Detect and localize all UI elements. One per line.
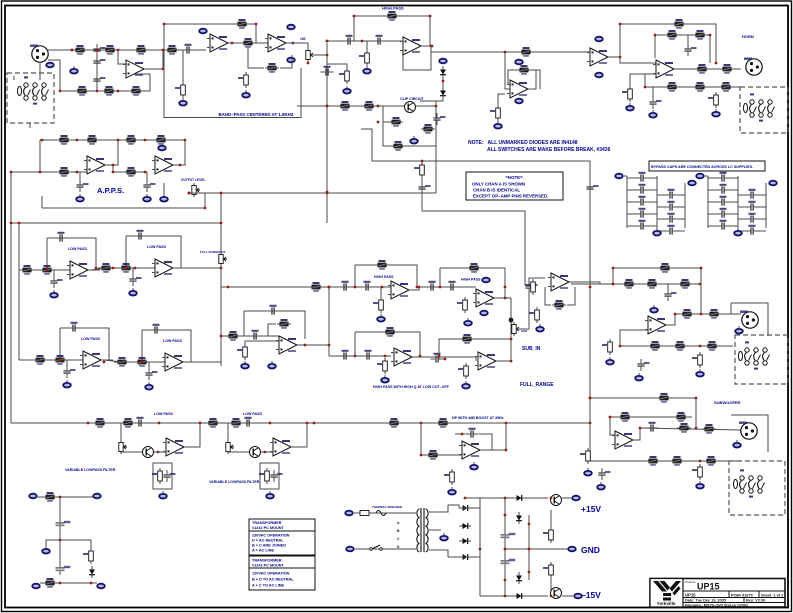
node junction d10 [528, 571, 531, 574]
svg-text:UP15: UP15 [685, 592, 696, 597]
transistor VLF2 fet [250, 447, 261, 458]
potentiometer P3 sub [512, 322, 520, 336]
wire c11 stub [79, 172, 81, 180]
node junction gnd rail [504, 548, 507, 551]
wire fr fb [355, 332, 420, 356]
wire VLF1 to op [154, 451, 166, 453]
node junction extra 43 [464, 497, 467, 500]
wire xfmr sec bot [429, 550, 448, 557]
node junction extra 9 [112, 171, 115, 174]
wire xfmr pri bot [400, 548, 416, 550]
op-amp VLF2 op [270, 438, 294, 456]
resistor R14 feedback [385, 11, 399, 21]
wire U2A out [229, 42, 268, 44]
node junction y106 [377, 105, 380, 108]
capacitor bypass B1a [717, 184, 730, 194]
ground R53 [381, 375, 389, 383]
node junction hp row [328, 286, 331, 289]
wire mid rail GND [505, 548, 568, 550]
resistor R10 vert [238, 72, 248, 88]
node junction extra 52 [163, 23, 166, 26]
svg-text:HIGH PASS: HIGH PASS [461, 278, 481, 282]
node junction extra 6 [204, 207, 207, 210]
wire r13 stub [327, 64, 347, 68]
switch SW1 pad [18, 76, 49, 104]
node junction extra 26 [510, 360, 513, 363]
node junction extra 60 [435, 105, 438, 108]
wire fb inner drop [654, 35, 656, 58]
wire bypass grid A right rail [684, 183, 686, 228]
node bottom left a [32, 584, 40, 589]
node bottom U4 [515, 99, 523, 104]
title block row2 cells [683, 597, 785, 599]
capacitor C3 [93, 74, 105, 86]
resistor R22 [421, 124, 435, 134]
wire bypass row2 B4 l [738, 230, 746, 232]
capacitor C35 big [501, 556, 516, 568]
ground BL [42, 546, 50, 554]
wire rail pos [465, 497, 548, 499]
node junction extra 61 [326, 105, 329, 108]
capacitor C4 [182, 44, 195, 54]
wire bypass row2 A3 r [677, 218, 685, 220]
svg-text:HORN: HORN [742, 34, 754, 39]
node junction x329 [328, 344, 331, 347]
capacitor C15 fb [267, 305, 280, 315]
ground R46 [377, 314, 385, 322]
band-pass section outline [164, 24, 301, 118]
wire sub fb y268 [613, 268, 701, 284]
op-amp LP1 [67, 261, 91, 279]
capacitor C12 vert [143, 180, 155, 192]
node junction extra 35 [609, 416, 612, 419]
wire switch lead 2 [29, 123, 31, 128]
thermal breaker TB1 [376, 511, 386, 516]
ground R76 [584, 468, 592, 476]
resistor R88 vert [543, 527, 553, 543]
svg-text:LOW PASS: LOW PASS [68, 247, 88, 251]
wire LP2 fb drop [125, 236, 127, 268]
svg-text:ALL SWITCHES ARE MAKE BEFORE B: ALL SWITCHES ARE MAKE BEFORE BREAK, #343… [487, 147, 611, 153]
capacitor bypass B2b [746, 201, 759, 211]
connector XLR J3 [740, 311, 758, 329]
wire LP4 c stub [148, 362, 150, 368]
wire apps mid [113, 165, 147, 172]
op-amp U7B [152, 156, 176, 174]
wire bypass row2 B2 l [738, 206, 746, 208]
wire rect top [448, 498, 505, 508]
capacitor bypass A1a [636, 184, 649, 194]
node junction LP2 [125, 267, 128, 270]
ground LP3 [63, 380, 71, 388]
wire hp input y41 [327, 40, 402, 42]
wire r50 right [567, 287, 575, 305]
fuse F1 [360, 511, 369, 516]
wire q3 out [562, 595, 573, 597]
wire LP4 out [186, 361, 195, 363]
capacitor bypass A3a [636, 208, 649, 218]
ground C11 [76, 194, 84, 202]
wire bypass row2 A3 l [657, 218, 665, 220]
resistor R1 [73, 45, 87, 55]
wire apps bottom [42, 193, 205, 208]
resistor R11 below U2B [265, 63, 279, 73]
resistor R13 vert [339, 68, 349, 84]
wire bypass row2 A1 r [677, 194, 685, 196]
op-amp U4 [507, 80, 531, 98]
node junction extra 1 [162, 49, 165, 52]
wire LP3 fb [60, 328, 109, 360]
resistor R34 [57, 135, 71, 145]
wire lower input y91 [60, 74, 150, 91]
resistor R74 [704, 456, 718, 466]
wire xlr pin2 drop [39, 62, 41, 73]
wire c31 loop2 [479, 434, 492, 450]
capacitor C32 big [56, 518, 71, 530]
transformer T1 [417, 508, 428, 552]
wire lp4 out right [191, 361, 221, 363]
svg-text:=NOTE=: =NOTE= [505, 175, 523, 180]
wire sub2 y427 [640, 428, 741, 430]
resistor LP1 r1 [20, 265, 34, 275]
wire ac bottom [355, 548, 400, 550]
VLF1 rc box [153, 463, 172, 489]
wire bypass row B3 l [708, 213, 717, 215]
op-amp U2A [207, 34, 231, 52]
potentiometer P2 full range [219, 252, 227, 266]
resistor R45 fb [375, 260, 389, 270]
wire LP4 fb drop [141, 330, 143, 362]
node junction extra 17 [141, 361, 144, 364]
svg-text:LOW PASS: LOW PASS [147, 245, 167, 249]
wire LP2 in [98, 267, 155, 269]
wire LP2 out [176, 267, 185, 269]
resistor R75 vert [692, 464, 702, 480]
wire clip vert from diode [436, 66, 443, 101]
ground U7B [160, 194, 168, 202]
capacitor C18 [361, 281, 374, 291]
wire U4 drop [505, 52, 510, 89]
ground C12 [143, 194, 151, 202]
resistor R19 [338, 101, 352, 111]
ground bypass grid B [734, 228, 742, 236]
resistor LP2 r2 [119, 263, 133, 273]
ground xfmr center tap [440, 533, 448, 541]
wire y106 from box [297, 105, 383, 107]
resistor R2 [103, 45, 117, 55]
ground LP1 [50, 290, 58, 298]
transistor Q2 +15V regulator [551, 495, 562, 506]
wire hpb drop [421, 423, 462, 455]
capacitor C24 [431, 353, 444, 363]
node top U4 [515, 60, 523, 65]
node junction apps1 [76, 139, 79, 142]
wire U7B out [174, 140, 185, 165]
wire u12 out [412, 357, 476, 361]
resistor R27 [695, 64, 709, 74]
wire VLF1 out [185, 423, 200, 447]
wire u8 in [221, 335, 279, 337]
wire U6 out y69 [675, 68, 741, 70]
capacitor bypass B4a [717, 220, 730, 230]
node top U5 [595, 37, 603, 42]
node junction input [71, 49, 74, 52]
wire sub2 fb y398 [590, 397, 696, 399]
node junction [231, 42, 234, 45]
wire xlr to lower [48, 60, 60, 91]
node junction extra 58 [644, 86, 647, 89]
ground R10 [242, 90, 250, 98]
capacitor C30 [242, 417, 255, 427]
node junction LP4 [141, 361, 144, 364]
node junction extra 59 [377, 121, 380, 124]
wire XLR J3 loop [731, 303, 768, 336]
wire pot wiper out [189, 192, 436, 194]
capacitor LP4 c [145, 368, 157, 380]
ground LP2 [129, 288, 137, 296]
ground VLF1 [159, 491, 167, 499]
wire LP3 out [104, 359, 113, 361]
svg-text:HIGH PASS: HIGH PASS [382, 6, 404, 11]
node junction y461 [699, 460, 702, 463]
resistor R32 vert [622, 86, 632, 102]
wire u9 to u10 [410, 287, 476, 290]
node junction LP3 [59, 359, 62, 362]
node junction u8 out [304, 344, 307, 347]
op-amp U7A [84, 156, 108, 174]
svg-text:THERMAL BREAKER: THERMAL BREAKER [372, 505, 403, 509]
wire input bus y50 [72, 49, 163, 51]
node junction fr1 [384, 355, 387, 358]
switch SW2 horn [744, 93, 775, 121]
title block product row divider [683, 590, 785, 592]
wire hp out bus y52 [421, 46, 590, 52]
svg-text:Date: Tue Dec 13, 2005: Date: Tue Dec 13, 2005 [685, 599, 726, 603]
resistor R52 fb [383, 327, 397, 337]
ground R75 [696, 481, 704, 489]
resistor R21 [389, 117, 403, 127]
wire hp1 fb [355, 265, 417, 287]
wire LP1 fb drop [46, 238, 48, 270]
ground R12 [179, 98, 187, 106]
resistor R43 vert [237, 344, 247, 360]
capacitor bypass B3a [717, 208, 730, 218]
node junction x19 [18, 222, 21, 225]
resistor R57 [645, 279, 659, 289]
svg-text:GND: GND [581, 545, 600, 555]
wire xfmr sec mid [429, 529, 441, 531]
transformer note box 1 [249, 519, 315, 555]
wire ac top [354, 512, 400, 514]
ground R48 [464, 318, 472, 326]
wire bypass row A1 r [648, 189, 657, 191]
node junction extra 51 [255, 23, 258, 26]
resistor R42 [226, 331, 240, 341]
transistor VLF1 fet [143, 447, 154, 458]
svg-text:OUTPUT LEVEL: OUTPUT LEVEL [181, 178, 205, 182]
wire bypass row2 B2 r [758, 206, 766, 208]
capacitor bypass A4b [665, 225, 678, 235]
svg-text:Yorkville: Yorkville [657, 601, 676, 606]
wire hp2 fb drop [439, 268, 441, 287]
resistor R40 tiny [414, 162, 424, 178]
wire lower fb [645, 74, 656, 87]
node junction VLF2 out [306, 422, 309, 425]
wire LP3 fb drop [59, 328, 61, 360]
wire bl vert [59, 497, 61, 563]
diode D1 [440, 66, 446, 78]
wire y161 path [361, 129, 590, 161]
wire bypass row B1 l [708, 189, 717, 191]
svg-text:TRANSFORMER: TRANSFORMER [252, 559, 282, 563]
node junction bus d [269, 422, 272, 425]
node junction bl1 [59, 496, 62, 499]
wire apps left bottom [41, 196, 43, 208]
wire r12 drop [182, 50, 184, 82]
ground R32 [626, 103, 634, 111]
resistor R54 fb [460, 334, 474, 344]
svg-text:SUB_IN: SUB_IN [522, 346, 541, 352]
resistor R35 [85, 135, 99, 145]
wire LP2 c stub [132, 268, 134, 274]
wire lp34 link [104, 360, 122, 362]
capacitor C16 [249, 330, 262, 340]
resistor R51 vert [529, 307, 539, 323]
wire c21 up [529, 278, 545, 281]
wire apps top y140 [40, 139, 185, 141]
diode D7 [459, 554, 471, 560]
op-amp U3 high pass [400, 37, 424, 55]
svg-text:NOTE: ALL UNMARKED DIODES AR: NOTE: ALL UNMARKED DIODES ARE IN4148 [468, 140, 578, 146]
wire bypass row2 A1 l [657, 194, 665, 196]
node junction extra 53 [431, 45, 434, 48]
op-amp LP2 [152, 259, 176, 277]
node junction extra 4 [71, 49, 74, 52]
resistor R26 [693, 30, 707, 40]
node bottom U2B [287, 58, 295, 63]
node junction bus a [87, 422, 90, 425]
resistor R68 [618, 412, 632, 422]
resistor R81 [387, 418, 401, 428]
potentiometer VLF2 [226, 440, 234, 454]
op-amp U1 [123, 60, 147, 78]
node junction bl2 [59, 539, 62, 542]
resistor R55 vert [458, 363, 468, 379]
node junction extra 22 [354, 355, 357, 358]
wire vert rail x505 [504, 498, 506, 596]
wire U1 output [145, 50, 163, 69]
resistor R65 vert [602, 339, 612, 355]
svg-text:A.P.P.S.: A.P.P.S. [97, 186, 124, 195]
resistor R38 [57, 167, 71, 177]
node bottom U5 [595, 73, 603, 78]
resistor R30 [693, 82, 707, 92]
wire hp feedback top [354, 15, 430, 17]
wire row2 in [19, 359, 40, 361]
wire c25 stub [667, 284, 669, 289]
svg-text:Product: Product [685, 580, 696, 584]
node junction extra 41 [550, 497, 553, 500]
wire pot to c21 [517, 293, 529, 329]
wire bl bottom [40, 582, 97, 584]
node V+ grid B [696, 174, 704, 179]
wire clip box loop [383, 101, 436, 146]
resistor R59 fb [658, 263, 672, 273]
ground VLF2 [266, 491, 274, 499]
op-amp U10 [473, 289, 497, 307]
node junction pot [307, 62, 310, 65]
wire bypass row B4 r [729, 225, 738, 227]
ground R66 [696, 369, 704, 377]
ground C28 [597, 482, 605, 490]
capacitor C10 vert [649, 97, 661, 109]
bigdot sub [509, 318, 514, 323]
wire bypass grid B right rail [765, 183, 767, 228]
node junction extra 13 [95, 267, 98, 270]
capacitor C27 [646, 422, 659, 432]
wire u14 lower y346 [620, 345, 733, 347]
node -15V out [574, 594, 582, 599]
node junction extra 0 [220, 192, 223, 195]
node junction y161 [421, 160, 424, 163]
node junction extra 7 [41, 139, 44, 142]
connector XLR J1 input [30, 45, 48, 63]
node junction u9 out [418, 286, 421, 289]
resistor R86 vert [83, 548, 93, 564]
wire bp fb top [164, 23, 256, 25]
capacitor LP2 c [129, 274, 141, 286]
svg-text:–15V: –15V [581, 590, 601, 600]
node junction extra 10 [144, 171, 147, 174]
wire bypass row2 B4 r [758, 230, 766, 232]
wire horn lower y87 [645, 86, 740, 88]
wire VLF2 drop [227, 423, 229, 452]
wire switch leads [13, 76, 15, 80]
resistor R87 [43, 578, 57, 588]
resistor R79 [206, 418, 220, 428]
resistor R89 vert [543, 562, 553, 578]
node junction extra 33 [589, 397, 592, 400]
node junction extra 55 [715, 62, 718, 65]
node junction extra 24 [438, 355, 441, 358]
op-amp LP3 [80, 351, 104, 369]
resistor R41 fb [277, 319, 291, 329]
wire u13 out [497, 360, 511, 362]
title block row3 cells [683, 602, 785, 604]
node junction u10 out [504, 297, 507, 300]
wire bypass row B2 r [729, 201, 738, 203]
node junction hp row2 [381, 286, 384, 289]
wire VLF1 link [121, 451, 144, 453]
resistor R50 [552, 300, 566, 310]
resistor R4 [102, 86, 116, 96]
node test point right [93, 494, 101, 499]
wire hp row1 in [221, 286, 391, 288]
node junction lower [117, 90, 120, 93]
wire pot to vert [311, 54, 327, 56]
capacitor C17 [339, 281, 352, 291]
svg-text:PCB# 91670: PCB# 91670 [731, 593, 753, 597]
node junction extra 36 [639, 427, 642, 430]
svg-text:#1242 PC MOUNT: #1242 PC MOUNT [252, 564, 285, 568]
resistor R70 [677, 423, 691, 433]
resistor R36 [124, 135, 138, 145]
resistor R83 [426, 450, 440, 460]
resistor R77 [93, 418, 107, 428]
node junction bus g [505, 422, 508, 425]
svg-text:230VAC OPERATION: 230VAC OPERATION [252, 534, 290, 538]
wire apps left drop [39, 140, 41, 172]
